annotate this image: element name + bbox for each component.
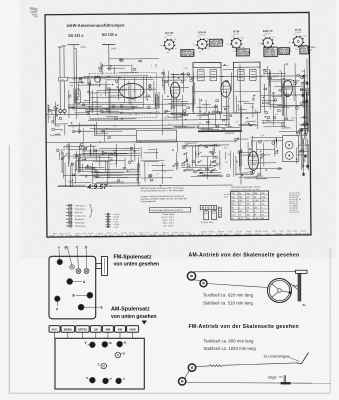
svg-text:AUS.: AUS. (51, 327, 57, 331)
svg-text:0,5M: 0,5M (67, 181, 72, 183)
svg-text:Ug1 = -6,5 V: Ug1 = -6,5 V (163, 220, 175, 222)
dense if2 right zone (279, 130, 302, 132)
svg-text:4.9.57: 4.9.57 (87, 184, 108, 191)
bus y120 (88, 120, 230, 121)
tube socket EL 84 (289, 28, 308, 50)
tube socket EABC 80 (258, 30, 275, 52)
right rail x306 (304, 69, 307, 129)
am pin T1 (103, 378, 109, 384)
svg-text:S: S (86, 376, 88, 380)
svg-text:47k: 47k (160, 45, 163, 47)
svg-text:0,1 µF: 0,1 µF (66, 233, 71, 235)
svg-text:B 29: B 29 (180, 232, 184, 234)
socket table 5 (300, 46, 316, 55)
box AM tuner top right (137, 130, 177, 142)
svg-text:5k: 5k (254, 95, 256, 97)
svg-text:90: 90 (169, 177, 171, 179)
svg-text:0,5M: 0,5M (303, 36, 307, 38)
dipole antenna SO131 left pair (59, 47, 61, 69)
svg-text:Best.Nr: Best.Nr (275, 232, 282, 235)
bus y185 (58, 185, 233, 187)
tube EABC80 envelope (283, 81, 293, 97)
svg-text:415 62: 415 62 (94, 235, 101, 237)
am drum cord to post (288, 282, 300, 291)
svg-text:21 435: 21 435 (66, 235, 73, 237)
svg-text:AM-Antrieb von der Skalenseite: AM-Antrieb von der Skalenseite gesehen (189, 253, 300, 259)
svg-text:3p: 3p (149, 112, 151, 114)
svg-text:B 29: B 29 (229, 231, 233, 233)
svg-text:Chassis gemessen bei 220 V~ u: Chassis gemessen bei 220 V~ und ohne Sig… (141, 190, 185, 192)
dense output stage zone (186, 168, 193, 170)
svg-text:47k: 47k (225, 119, 228, 121)
dense band below sockets (120, 58, 159, 60)
svg-text:21 435: 21 435 (198, 234, 205, 236)
dense can2 lower zone (238, 124, 257, 126)
svg-text:eing 7: eing 7 (98, 233, 103, 235)
svg-text:g2: g2 (253, 158, 255, 160)
svg-text:0,1 µF: 0,1 µF (86, 235, 93, 237)
svg-text:1k: 1k (72, 127, 74, 129)
dense mid gap zone (225, 132, 234, 134)
svg-text:FM-Spulensatz: FM-Spulensatz (114, 254, 152, 260)
svg-text:1n: 1n (156, 174, 158, 176)
svg-text:Ua = 250 V: Ua = 250 V (163, 225, 174, 227)
svg-text:MONO: MONO (64, 327, 72, 331)
svg-text:25p: 25p (238, 124, 241, 126)
dipole antenna folded 240ohm (67, 44, 79, 46)
electrolytic cap 2 (212, 211, 217, 220)
svg-text:15k: 15k (263, 35, 266, 37)
svg-text:0,1 µF: 0,1 µF (303, 233, 310, 235)
socket table 3 (236, 49, 250, 57)
electrolytic caps block (200, 205, 217, 209)
UKW tuner dashed enclosure (89, 73, 157, 119)
svg-text:0,25: 0,25 (102, 78, 106, 80)
svg-text:415 62: 415 62 (234, 234, 241, 236)
svg-text:SO 131 a: SO 131 a (68, 34, 84, 38)
svg-text:2Mk 10k8k: 2Mk 10k8k (279, 53, 290, 55)
svg-text:50+50µF 350V: 50+50µF 350V (201, 222, 214, 224)
svg-text:SW 12: SW 12 (295, 233, 302, 235)
svg-text:0,1 µF: 0,1 µF (262, 231, 268, 233)
svg-text:1M: 1M (246, 207, 249, 209)
svg-text:40p: 40p (72, 79, 75, 81)
am cord mid (207, 284, 268, 288)
svg-text:Rö 8: Rö 8 (53, 233, 57, 235)
svg-text:2,2k: 2,2k (184, 142, 188, 144)
svg-text:2M: 2M (302, 85, 305, 87)
push button row (49, 326, 60, 333)
svg-text:25p: 25p (224, 147, 227, 149)
bus junction dots (69, 76, 263, 188)
svg-text:70: 70 (293, 34, 295, 36)
svg-text:0,1 µF: 0,1 µF (201, 231, 207, 233)
svg-text:15k: 15k (227, 154, 230, 156)
svg-text:Tr 225: Tr 225 (245, 233, 252, 236)
hatched trimmer strip (218, 207, 221, 218)
svg-text:st 41: st 41 (82, 232, 86, 235)
svg-text:12p: 12p (225, 162, 228, 164)
svg-text:UKW auf: UKW auf (75, 212, 83, 214)
svg-text:eing 7: eing 7 (154, 232, 159, 234)
svg-text:2,2k: 2,2k (258, 43, 261, 45)
svg-text:Ug2 = 250 V: Ug2 = 250 V (163, 223, 175, 225)
svg-text:9 31 62: 9 31 62 (295, 32, 301, 34)
heavy chassis bar (198, 130, 242, 132)
svg-text:2x: 2x (303, 303, 307, 307)
extra buses (68, 104, 196, 105)
svg-text:9 31 62: 9 31 62 (166, 35, 172, 37)
svg-text:0,1 µF: 0,1 µF (300, 230, 306, 232)
svg-text:st 41: st 41 (146, 231, 150, 234)
svg-text:E: E (101, 306, 103, 310)
svg-text:B 29: B 29 (280, 231, 284, 233)
tuner coil box (75, 89, 80, 104)
svg-text:50: 50 (236, 121, 238, 123)
output transformer box with jacks (283, 135, 299, 161)
svg-text:5n50 1n4,7k: 5n50 1n4,7k (237, 54, 249, 56)
svg-text:von unten gesehen: von unten gesehen (114, 262, 160, 268)
svg-text:Tastensatz 2: Tastensatz 2 (75, 208, 86, 211)
svg-text:0,1 µF: 0,1 µF (206, 234, 213, 236)
svg-text:220 V 50 Hz: 220 V 50 Hz (289, 212, 299, 214)
dense if1 zone (171, 73, 179, 75)
svg-text:12p: 12p (303, 161, 306, 163)
svg-text:415 62: 415 62 (150, 235, 157, 237)
svg-text:0,1M: 0,1M (254, 218, 259, 220)
svg-text:Zeiger: Zeiger (268, 375, 278, 379)
svg-text:415 62: 415 62 (140, 235, 147, 237)
am pulley 1 (187, 272, 195, 280)
svg-text:0,25g2 ka: 0,25g2 ka (300, 52, 311, 54)
svg-text:21 435: 21 435 (172, 232, 177, 234)
scan page edge left (8, 145, 10, 393)
svg-text:2n: 2n (231, 218, 233, 220)
svg-text:1n: 1n (199, 123, 201, 125)
svg-text:40p: 40p (48, 117, 51, 119)
socket table 4a (264, 47, 278, 57)
svg-text:2,2k: 2,2k (261, 135, 265, 137)
fm wrap V (296, 353, 309, 364)
svg-text:0,1 µF: 0,1 µF (58, 235, 65, 237)
measurement note paragraph (140, 187, 187, 204)
tube EL84 envelope (248, 151, 258, 170)
right rail junction blobs (300, 75, 309, 176)
svg-text:90: 90 (195, 142, 197, 144)
svg-text:= 2 µF: = 2 µF (113, 227, 119, 229)
long vertical x240 (240, 64, 241, 184)
fm pulley 1 (188, 364, 195, 371)
svg-text:st 41: st 41 (272, 230, 276, 233)
FM coil trimmer shaft (102, 257, 108, 276)
socket table 4b (279, 48, 292, 56)
am pulley 2 (200, 280, 207, 287)
svg-text:Spannungen gemessen bei 220 V~: Spannungen gemessen bei 220 V~ (151, 210, 184, 212)
svg-text:21 435: 21 435 (216, 234, 223, 236)
svg-text:220: 220 (295, 82, 298, 84)
am pin Z (101, 363, 107, 369)
svg-text:2,2k: 2,2k (133, 90, 137, 92)
svg-text:0,1 µF: 0,1 µF (159, 235, 166, 237)
svg-text:240Ω: 240Ω (111, 48, 117, 50)
tube socket ECH 81 (193, 32, 210, 53)
svg-text:Rö 8: Rö 8 (287, 231, 291, 233)
svg-text:9 31 62: 9 31 62 (199, 34, 205, 36)
svg-text:MW: MW (106, 327, 111, 331)
svg-text:eing 7: eing 7 (109, 235, 115, 237)
bus y77 (68, 76, 308, 78)
svg-text:Stahlseil ca. 510 mm lang: Stahlseil ca. 510 mm lang (203, 300, 253, 305)
tube EF89 envelope (221, 81, 231, 97)
marker triangle (142, 321, 148, 325)
svg-text:15k: 15k (114, 163, 117, 165)
svg-text:100: 100 (248, 155, 251, 157)
tube ECC85 envelope (120, 83, 144, 98)
pin A (67, 279, 73, 285)
svg-text:ORTSS: ORTSS (78, 327, 87, 331)
svg-text:0,25: 0,25 (231, 36, 234, 38)
bus y141 (46, 141, 237, 143)
svg-text:SO 132 a: SO 132 a (102, 33, 118, 37)
svg-text:1M: 1M (279, 70, 282, 72)
svg-text:AM-Spulensatz: AM-Spulensatz (111, 307, 150, 313)
svg-text:25p: 25p (291, 117, 294, 119)
note rows below box (162, 213, 176, 228)
svg-text:von unten gesehen: von unten gesehen (111, 314, 157, 320)
svg-text:g2a 0,1M6p: g2a 0,1M6p (264, 55, 276, 57)
svg-text:4,7k: 4,7k (193, 45, 196, 47)
svg-text:FM-Antrieb von der Skalenseite: FM-Antrieb von der Skalenseite gesehen (189, 324, 299, 330)
svg-text:2n: 2n (168, 124, 170, 126)
svg-text:Z: Z (98, 362, 100, 366)
legend bracket (89, 204, 92, 217)
FM Spulensatz box (49, 256, 96, 319)
svg-text:Stahlseil ca. 1020 mm lang: Stahlseil ca. 1020 mm lang (204, 346, 257, 351)
svg-text:6p: 6p (175, 48, 177, 50)
scan page edge right (329, 248, 331, 393)
svg-text:5k: 5k (208, 48, 210, 50)
dense right low strip (299, 134, 308, 136)
IF can 2 (233, 62, 260, 113)
bus y113 (46, 113, 240, 115)
svg-text:2M: 2M (90, 110, 93, 112)
svg-text:st 41: st 41 (293, 230, 297, 233)
dense left lower zone (56, 125, 60, 127)
svg-text:Netzschalter: Netzschalter (75, 225, 86, 228)
svg-text:2,2k: 2,2k (250, 107, 254, 109)
svg-text:2x umschlingen: 2x umschlingen (264, 355, 290, 359)
svg-text:70: 70 (68, 157, 70, 159)
dense can1 lower zone (201, 128, 219, 130)
fm cord top with spring (196, 365, 209, 368)
svg-text:Tastensatz 1: Tastensatz 1 (75, 204, 86, 207)
svg-text:0,25: 0,25 (82, 77, 86, 79)
svg-text:9 31 62: 9 31 62 (265, 33, 271, 35)
svg-text:eing 7: eing 7 (139, 233, 144, 235)
svg-text:0,25: 0,25 (246, 172, 250, 174)
svg-text:Textilseil ca. 620 mm lang: Textilseil ca. 620 mm lang (203, 292, 254, 297)
svg-text:UKW-Antennenausführungen: UKW-Antennenausführungen (67, 22, 125, 28)
stamp smudge top-left (29, 7, 37, 17)
boxed note label (149, 207, 190, 212)
pin E (78, 304, 84, 310)
svg-text:0,5M: 0,5M (183, 68, 188, 70)
fm cord bottom (187, 382, 312, 385)
svg-text:10k: 10k (110, 163, 113, 165)
svg-text:90: 90 (199, 51, 201, 53)
svg-text:(k): (k) (65, 246, 69, 250)
svg-text:Tr 225: Tr 225 (129, 232, 134, 235)
svg-text:6p: 6p (164, 37, 166, 39)
svg-text:Bandbreite: Bandbreite (75, 218, 84, 221)
svg-text:470: 470 (128, 108, 131, 110)
svg-text:25p: 25p (242, 47, 245, 49)
svg-text:47090 a0,1: 47090 a0,1 (210, 45, 221, 47)
svg-text:Best.Nr: Best.Nr (218, 230, 225, 233)
dipole antenna SO132 (102, 43, 115, 45)
electrolytic cap 1 (204, 211, 209, 220)
svg-text:47k: 47k (114, 126, 117, 128)
svg-text:50: 50 (120, 175, 122, 177)
svg-text:Sym: Sym (60, 79, 64, 81)
am pin T2 (116, 378, 122, 384)
svg-text:F: F (56, 308, 58, 312)
am pin B1 (102, 342, 108, 348)
svg-text:1n: 1n (229, 98, 231, 100)
svg-text:470: 470 (275, 114, 278, 116)
svg-text:0,5M: 0,5M (69, 85, 74, 87)
svg-text:Untere Werte: Untere Werte (162, 213, 175, 216)
voltage table grid (231, 186, 269, 220)
svg-text:1n: 1n (273, 77, 275, 79)
svg-text:k: k (151, 65, 152, 67)
svg-text:21 435: 21 435 (88, 233, 93, 235)
svg-text:9 31 62: 9 31 62 (233, 34, 239, 36)
sym label (59, 77, 68, 80)
svg-text:SW 12: SW 12 (189, 234, 196, 236)
svg-text:0,1 µF: 0,1 µF (236, 231, 242, 233)
dense AM cluster zone (81, 152, 140, 155)
svg-text:e: e (58, 246, 60, 250)
svg-text:240Ω: 240Ω (80, 47, 86, 49)
svg-text:Drehko max: Drehko max (75, 216, 85, 218)
IF can 1 (193, 62, 221, 113)
tube socket ECC 85 (160, 33, 177, 54)
svg-text:1M: 1M (164, 171, 167, 173)
parts list column right (289, 193, 301, 214)
svg-text:LW: LW (94, 327, 98, 331)
svg-text:SW 12: SW 12 (59, 233, 64, 235)
svg-text:415 62: 415 62 (255, 231, 261, 233)
svg-text:5k: 5k (207, 38, 209, 40)
dense out stage zone (253, 140, 283, 142)
legend symbol rows left (66, 204, 86, 228)
svg-text:415 62: 415 62 (255, 234, 262, 236)
socket table 2 (209, 39, 224, 47)
am pin G (115, 352, 121, 358)
svg-text:415 62: 415 62 (75, 235, 82, 237)
main schematic border box (45, 12, 311, 237)
svg-text:6p: 6p (289, 42, 291, 44)
svg-text:0,1 µF: 0,1 µF (186, 232, 191, 234)
svg-text:bei U = 220 V~: bei U = 220 V~ (162, 217, 176, 219)
am cord pulley link (194, 279, 201, 282)
am post bracket (296, 270, 308, 273)
am pin B2 (117, 341, 123, 347)
am cord top (192, 270, 296, 273)
svg-text:5n: 5n (197, 36, 199, 38)
svg-text:Textilseil ca. 600 mm lang: Textilseil ca. 600 mm lang (204, 339, 255, 344)
band switch symbol (61, 149, 63, 173)
svg-text:0,5M: 0,5M (93, 101, 98, 103)
svg-text:470: 470 (272, 37, 275, 39)
AM Spulensatz box (55, 338, 144, 389)
am pin S (90, 377, 96, 383)
svg-text:21 435: 21 435 (121, 233, 126, 235)
svg-text:5n: 5n (245, 122, 247, 124)
svg-text:25p: 25p (295, 49, 298, 51)
svg-text:1k: 1k (227, 44, 229, 46)
svg-text:415 62: 415 62 (178, 234, 185, 236)
svg-text:3p: 3p (132, 99, 134, 101)
svg-text:eing 7: eing 7 (247, 231, 252, 233)
fm pulley 2 (179, 378, 186, 385)
svg-text:5k: 5k (100, 95, 102, 97)
am drum (268, 279, 292, 303)
svg-text:0,1 µF: 0,1 µF (117, 235, 124, 237)
fm pulley link (185, 371, 189, 378)
svg-text:eing 7: eing 7 (75, 233, 80, 235)
svg-text:1M: 1M (130, 169, 133, 171)
banana plugs (59, 109, 62, 112)
socket table 1 (181, 49, 196, 57)
svg-text:KW: KW (118, 327, 123, 331)
tube socket EF 89 (227, 31, 245, 52)
svg-text:2n: 2n (301, 71, 303, 73)
svg-text:2,2k: 2,2k (241, 37, 244, 39)
svg-text:0,5M: 0,5M (175, 116, 180, 118)
svg-text:UKW: UKW (129, 327, 136, 331)
svg-text:100: 100 (166, 52, 169, 54)
svg-text:Best.Nr: Best.Nr (163, 231, 169, 234)
svg-text:40p: 40p (174, 39, 177, 41)
dense tuner zone (77, 101, 143, 104)
long vertical x310 (306, 59, 309, 134)
svg-text:0,1M: 0,1M (254, 200, 259, 202)
svg-text:25p: 25p (164, 118, 167, 120)
svg-text:T: T (123, 377, 125, 381)
svg-text:Skala eingestellt: Skala eingestellt (140, 200, 155, 203)
svg-text:Klangregler: Klangregler (75, 222, 85, 224)
svg-text:eing 7: eing 7 (224, 234, 230, 236)
svg-text:T: T (110, 377, 112, 381)
svg-text:Rö 8: Rö 8 (107, 233, 111, 235)
svg-text:1k: 1k (234, 142, 236, 144)
scan page edge bottom (9, 392, 330, 394)
pin F (55, 296, 60, 301)
svg-text:6p: 6p (61, 130, 63, 132)
dense band y121-141 left (85, 130, 122, 132)
svg-text:15k: 15k (163, 75, 166, 77)
svg-text:0,5M: 0,5M (124, 148, 129, 150)
svg-text:Tr 225: Tr 225 (208, 230, 213, 233)
dense right border strip (302, 125, 309, 127)
svg-text:25p: 25p (252, 98, 255, 100)
svg-text:2M: 2M (261, 218, 264, 220)
circuit area scan fuzz (46, 14, 310, 236)
svg-text:21 435: 21 435 (168, 234, 175, 236)
dense AM right lighter (144, 152, 159, 154)
